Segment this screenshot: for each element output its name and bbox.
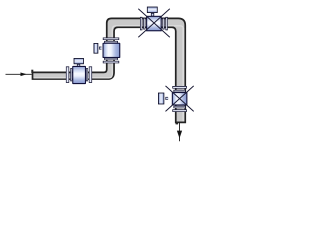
meter M2 : bottom wide flange bar xyxy=(103,61,119,64)
meter M2 : top wide flange bar xyxy=(103,38,119,41)
valve V1 : left wide flange bar xyxy=(140,17,142,30)
valve V2 : X cross lines xyxy=(166,86,194,112)
flow meter M1 : right narrow flange bar xyxy=(86,68,88,81)
valve V2 : body xyxy=(172,92,188,106)
valve V1 : right wide flange bar xyxy=(165,17,167,30)
meter M2 : body xyxy=(103,43,121,58)
outlet flow arrow xyxy=(178,123,182,141)
wire: main pipe run from inlet to outlet with three elbows xyxy=(33,18,186,122)
meter M2 : side nub xyxy=(99,47,102,50)
valve V1 : right narrow flange bar xyxy=(162,18,164,30)
meter M2 : top narrow flange bar xyxy=(104,41,118,43)
valve V2 : bottom wide flange bar xyxy=(172,109,187,112)
outlet pipe end tick xyxy=(176,122,178,124)
flow meter M1 : actuator cap xyxy=(74,58,84,64)
inlet flow arrow xyxy=(6,73,32,76)
valve V1 : actuator cap xyxy=(147,7,158,13)
flow meter M1 : right wide flange bar xyxy=(89,66,92,83)
valve V2 : side cap xyxy=(158,93,164,105)
valve V1 : left narrow flange bar xyxy=(143,18,145,30)
valve V2 : side nub xyxy=(165,97,168,100)
wire: right riser extra highlight xyxy=(182,28,184,121)
meter M2 : bottom narrow flange bar xyxy=(104,58,118,60)
valve V2 : top wide flange bar xyxy=(172,86,187,89)
valve V1 : actuator nub xyxy=(151,13,154,16)
valve V2 : top narrow flange bar xyxy=(173,90,185,92)
flow meter M1 : body xyxy=(72,66,86,84)
inlet pipe end tick xyxy=(31,70,33,73)
valve V1 : body xyxy=(146,16,162,31)
valve V1 : X cross lines xyxy=(138,9,170,38)
meter M2 : side cap xyxy=(94,43,99,54)
flow meter M1 : left narrow flange bar xyxy=(70,68,72,81)
flow meter M1 : actuator nub xyxy=(77,64,80,67)
valve V2 : bottom narrow flange bar xyxy=(173,106,185,108)
wire: pipe highlight band along lower/right inner side xyxy=(34,26,184,122)
flow meter M1 : left wide flange bar xyxy=(66,66,69,83)
